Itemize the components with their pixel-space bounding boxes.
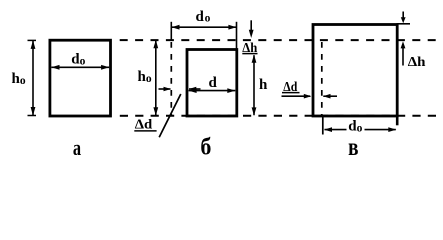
svg-text:d: d [209,75,218,91]
svg-text:Δh: Δh [242,41,257,56]
svg-text:h: h [259,77,268,93]
svg-text:Δd: Δd [135,118,153,133]
svg-text:б: б [200,135,211,161]
svg-text:Δh: Δh [408,55,426,70]
svg-text:Δd: Δd [283,80,297,95]
svg-text:а: а [73,135,81,160]
svg-text:в: в [348,134,358,161]
